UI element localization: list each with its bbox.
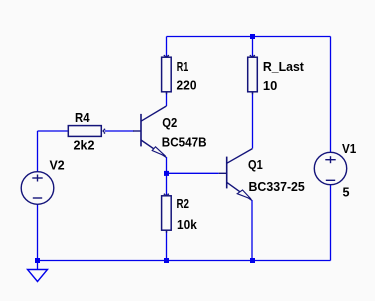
wire R1 top stub: [166, 37, 168, 58]
svg-text:R_Last: R_Last: [263, 59, 305, 74]
transistor Q1 BC337-25 (NPN): [219, 149, 253, 201]
svg-text:V1: V1: [342, 141, 356, 156]
wire V2 to R4: [38, 130, 68, 132]
svg-text:R4: R4: [75, 110, 90, 125]
wire top rail: [167, 36, 331, 38]
transistor Q2 BC547B (NPN): [133, 106, 166, 157]
svg-text:10k: 10k: [177, 217, 197, 232]
junction top rail / R_Last: [250, 34, 255, 39]
wire ground stub: [37, 261, 39, 270]
svg-text:2k2: 2k2: [74, 137, 95, 152]
wire R4 to Q2 base: [105, 130, 134, 132]
svg-text:Q2: Q2: [162, 115, 177, 130]
resistor R1: [162, 55, 172, 95]
svg-text:BC337-25: BC337-25: [249, 179, 305, 194]
wire Q1 emitter to rail: [251, 200, 253, 261]
svg-text:R2: R2: [177, 196, 190, 211]
voltage source V2: [21, 172, 54, 205]
wire right vertical to V1: [330, 37, 332, 153]
wire V2 top: [37, 131, 39, 172]
wire V2 bottom: [37, 204, 39, 261]
wire V1 bottom: [330, 185, 332, 261]
svg-text:Q1: Q1: [248, 157, 263, 172]
junction R2 bottom rail: [164, 258, 169, 263]
junction ground / V2: [35, 258, 40, 263]
wire R2 bottom: [166, 230, 168, 260]
wire Q2 emitter to node: [166, 157, 168, 173]
svg-text:R1: R1: [177, 59, 189, 74]
wire node to Q1 base: [167, 172, 219, 174]
wire R2 top stub: [166, 173, 168, 195]
junction Q1 emitter rail: [250, 258, 255, 263]
wire R1 bottom to Q2 collector: [166, 92, 168, 106]
wire R_Last bottom to Q1 collector: [252, 92, 254, 148]
resistor R2: [162, 193, 172, 232]
resistor R_Last: [248, 55, 258, 95]
svg-text:V2: V2: [50, 158, 65, 173]
svg-text:10: 10: [263, 78, 277, 93]
svg-text:5: 5: [343, 185, 350, 200]
junction node Q2 emitter / R2 / Q1 base: [164, 171, 169, 176]
wire bottom rail: [38, 260, 331, 262]
ground: [28, 270, 48, 282]
svg-text:BC547B: BC547B: [162, 135, 207, 150]
svg-text:220: 220: [177, 77, 197, 92]
wire R_Last top stub: [252, 37, 254, 58]
resistor R4: [68, 126, 105, 137]
voltage source V1: [314, 152, 346, 184]
